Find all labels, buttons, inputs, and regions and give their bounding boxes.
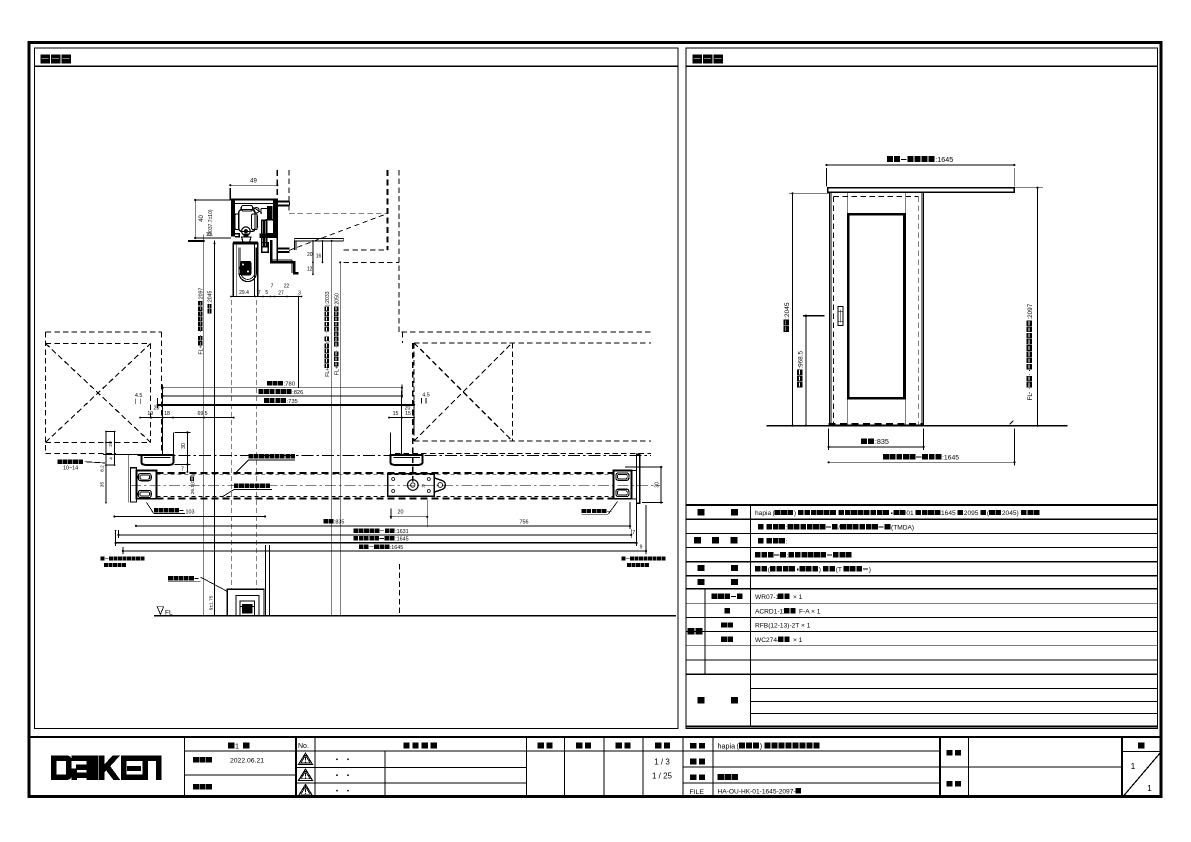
warning triangle 2	[299, 769, 313, 780]
right panel border	[686, 48, 1158, 729]
long dim line inner 1631	[119, 534, 632, 536]
svg-text::2050: :2050	[334, 293, 340, 306]
revision row dots	[336, 758, 338, 760]
svg-text:20: 20	[398, 510, 404, 516]
right panel title 正面図	[693, 55, 723, 64]
left jamb dim 30	[186, 432, 188, 464]
left jamb top edge	[129, 454, 174, 456]
seitei/kaitei row divider	[185, 774, 297, 776]
left panel title 断面図	[41, 55, 71, 64]
svg-text:69.5: 69.5	[197, 411, 207, 417]
svg-text:): )	[794, 510, 796, 517]
rail inner bolt detail	[267, 206, 272, 219]
right wall X-box verticals	[413, 343, 415, 441]
svg-text:1 / 3: 1 / 3	[654, 758, 670, 767]
band top bold dashed	[157, 472, 614, 474]
bottom stopper label	[168, 576, 198, 580]
spec table remarks inner lines	[751, 688, 1158, 690]
svg-text:30: 30	[655, 482, 661, 488]
soffit dashed top	[289, 212, 388, 214]
svg-text:(T: (T	[836, 567, 842, 574]
svg-text::1645: :1645	[390, 545, 404, 551]
dim 103	[114, 516, 265, 518]
left wall X-box top dashed	[46, 331, 162, 333]
right stopper flange	[637, 454, 640, 503]
handle height dim 968.5	[805, 316, 807, 426]
svg-text:40: 40	[199, 215, 205, 222]
svg-text:hapia: hapia	[755, 510, 771, 517]
long dim line rail 1645	[123, 550, 646, 552]
door width dim 835	[829, 446, 924, 448]
left stopper rollers	[138, 474, 151, 481]
svg-text::1645: :1645	[395, 537, 409, 543]
svg-text:× 1: × 1	[793, 594, 803, 601]
svg-text:20: 20	[405, 406, 411, 412]
bottom stopper outer dim 1645	[829, 461, 1015, 463]
svg-text:10~14: 10~14	[63, 466, 78, 472]
spec table hinban sub divider	[704, 589, 706, 675]
shimo stopper label right	[582, 509, 612, 513]
svg-text:5: 5	[265, 290, 268, 296]
kaitei date label	[193, 784, 212, 790]
opening dim line 1	[163, 387, 402, 389]
small dims row right	[389, 417, 414, 419]
rotated FL labels left pair	[198, 288, 204, 355]
door lock channel U	[239, 248, 256, 282]
svg-text::826: :826	[292, 390, 303, 396]
dim 756	[427, 525, 630, 527]
svg-text:1645: 1645	[941, 510, 956, 517]
svg-text:4: 4	[108, 457, 114, 460]
svg-text:): )	[819, 567, 821, 574]
svg-text:29.4: 29.4	[239, 290, 249, 296]
rail mount top bracket	[277, 201, 290, 203]
svg-text:103: 103	[186, 510, 195, 516]
svg-text:26.1(C: 26.1(C	[190, 479, 196, 494]
svg-text:2095: 2095	[964, 510, 979, 517]
bottom guide verticals	[265, 545, 267, 616]
left jamb bold piece	[141, 455, 173, 465]
door handle	[838, 307, 843, 326]
right panel label row line	[686, 65, 1158, 67]
soffit bottom solid lines	[294, 238, 343, 240]
left stopper block	[137, 471, 157, 499]
svg-text::1645: :1645	[942, 455, 959, 462]
svg-text:): )	[869, 567, 871, 574]
svg-text::968.5: :968.5	[797, 350, 804, 368]
band thickness label 26.1	[190, 474, 196, 494]
tick door top	[188, 240, 205, 242]
opening dim line 2	[163, 395, 402, 397]
svg-text:7: 7	[632, 530, 635, 536]
svg-text:RFB(12-13)-2T × 1: RFB(12-13)-2T × 1	[755, 623, 811, 630]
right stopper block	[614, 471, 632, 499]
left panel label row line	[35, 65, 679, 67]
svg-text:12: 12	[307, 267, 313, 273]
soffit corner verticals	[293, 241, 295, 250]
svg-text:/: /	[838, 525, 840, 532]
dim 40 left	[194, 200, 196, 238]
bottom FL offset label	[209, 595, 215, 610]
svg-text:(TMDA): (TMDA)	[891, 525, 914, 532]
left wall X-box verticals	[45, 332, 47, 454]
wall dashed bold right	[387, 170, 389, 250]
svg-text:): )	[760, 742, 762, 751]
spec table label divider	[750, 505, 752, 727]
rail end cap label right	[622, 557, 666, 561]
band label 1	[249, 454, 296, 458]
svg-text:4.5: 4.5	[422, 393, 430, 399]
svg-text:FL: FL	[165, 610, 173, 617]
svg-text:49: 49	[250, 179, 257, 185]
right wall X diagonals	[414, 343, 512, 441]
revision rows	[296, 766, 527, 768]
svg-text:No.: No.	[298, 743, 309, 750]
svg-text::735: :735	[287, 399, 298, 405]
opening dim extension verticals	[162, 385, 164, 434]
door leaf inner edge lines	[831, 192, 833, 425]
title block header bottom line	[185, 750, 941, 752]
middle runner bracket plate	[388, 474, 435, 497]
bottom stopper inner box	[240, 601, 255, 615]
dim 49 top	[230, 184, 277, 186]
opening dashed left	[833, 196, 835, 425]
svg-text:16: 16	[316, 254, 322, 260]
opening dashed top	[834, 195, 919, 197]
svg-text:FL+: FL+	[325, 368, 331, 377]
left wall X diagonals	[46, 344, 151, 443]
warning triangle 3	[299, 784, 313, 795]
dim 835	[136, 525, 427, 527]
small dims row left	[140, 417, 234, 419]
soffit extension lines	[331, 241, 333, 616]
runner bracket big circle	[408, 480, 419, 491]
long dim extension verticals	[115, 530, 117, 546]
svg-text:FILE: FILE	[690, 789, 705, 796]
floor line front view	[767, 425, 1068, 427]
left panel border	[35, 48, 679, 729]
svg-text:15: 15	[393, 411, 399, 417]
door lock body blob	[240, 261, 251, 276]
svg-text:FL+: FL+	[199, 345, 205, 354]
revision desc divider	[384, 751, 386, 797]
band label 2	[234, 484, 270, 488]
rail bottom hooks	[235, 234, 239, 237]
zumei text	[718, 774, 738, 780]
door height extension line	[214, 241, 216, 616]
shimo stopper label left	[154, 508, 184, 512]
right jamb bold piece	[390, 455, 422, 465]
svg-text:10: 10	[206, 232, 212, 238]
door face dashed projections	[231, 300, 233, 589]
rail tolerance label	[208, 209, 214, 236]
svg-text:1: 1	[1131, 761, 1136, 771]
floor line	[154, 615, 676, 617]
title block vertical dividers	[184, 737, 186, 797]
spec sub labels	[712, 594, 743, 599]
long dim line 1645 bold	[116, 542, 637, 544]
svg-text:ACRD1-11: ACRD1-11	[755, 608, 787, 615]
hanging rail bar	[828, 188, 1015, 193]
band center dashdot	[130, 485, 660, 487]
svg-text:(: (	[325, 341, 331, 343]
door design panel bold rect	[848, 214, 904, 398]
cover L piece	[271, 240, 298, 273]
left wall X-box bottom dashed	[46, 441, 151, 443]
dim row under assembly	[231, 296, 302, 298]
bottom stopper housing outer	[227, 589, 264, 615]
runner bracket pointed end	[434, 478, 445, 492]
door top edge	[233, 241, 258, 243]
svg-text:19: 19	[147, 411, 153, 417]
right stopper rollers	[616, 473, 629, 480]
page numbers with diagonal	[1124, 753, 1161, 797]
svg-text:20: 20	[108, 441, 114, 447]
front view top dimension 1645	[827, 164, 1015, 166]
FL to rail top dim 2097	[1037, 188, 1039, 426]
svg-text:30: 30	[181, 443, 187, 449]
svg-text:8.2: 8.2	[99, 465, 105, 472]
svg-text:1 / 25: 1 / 25	[652, 772, 673, 781]
warning triangle 1	[299, 753, 313, 764]
svg-text:15: 15	[405, 411, 411, 417]
svg-text:R: R	[422, 484, 426, 490]
svg-text::2045: :2045	[784, 302, 791, 319]
svg-text::2097: :2097	[1027, 303, 1034, 319]
svg-text:× 1: × 1	[793, 637, 803, 644]
svg-text:1: 1	[235, 741, 239, 750]
left stopper flange	[131, 468, 137, 502]
right wall bold dashed face	[412, 343, 414, 482]
title block outer	[29, 736, 1161, 738]
dim extension lines top	[826, 168, 828, 187]
right block dim 30	[660, 467, 662, 503]
svg-text:FL+: FL+	[334, 366, 340, 375]
svg-text:4.5: 4.5	[135, 393, 143, 399]
svg-text:3: 3	[298, 291, 301, 297]
svg-text:hapia: hapia	[718, 742, 736, 751]
svg-text:22: 22	[284, 284, 290, 290]
svg-text:2022.06.21: 2022.06.21	[230, 758, 264, 765]
svg-text:2045): 2045)	[1002, 510, 1019, 517]
svg-text::780: :780	[284, 382, 295, 388]
page header	[1138, 743, 1144, 749]
right wall bottom dashed	[414, 440, 651, 442]
hanger bracket plate	[242, 237, 251, 242]
right wall top dashed	[402, 331, 652, 333]
svg-text:7: 7	[258, 290, 261, 296]
door bottom stopper dashes	[829, 423, 924, 425]
center line dash-dot	[138, 454, 651, 456]
hanger axle	[242, 227, 251, 236]
opening dashed right	[917, 196, 919, 425]
svg-text:1: 1	[1147, 783, 1152, 793]
dim 20 under bracket	[391, 516, 427, 518]
left jamb verticals	[162, 391, 164, 455]
band bottom bold dashed	[157, 497, 614, 499]
wall dashed thin right	[398, 170, 400, 332]
dashed wall projection right	[398, 564, 400, 616]
svg-text:27: 27	[278, 291, 284, 297]
svg-text::: :	[787, 553, 789, 560]
svg-text:35: 35	[99, 482, 105, 488]
bottom stopper dark blob	[242, 604, 253, 614]
wall finish thickness dims	[105, 432, 107, 503]
svg-text:WR07-1: WR07-1	[755, 594, 780, 601]
door leaf section sides	[232, 242, 234, 296]
DAIKEN logo	[52, 756, 72, 780]
svg-text:7: 7	[181, 467, 184, 473]
small roller top right	[254, 208, 259, 213]
spec table horizontal lines	[686, 504, 1158, 506]
right jamb verticals	[401, 391, 403, 455]
svg-text:18: 18	[164, 411, 170, 417]
hanger side guides	[235, 214, 239, 230]
rail end cap label left	[101, 557, 145, 561]
svg-text:):2033: ):2033	[325, 291, 331, 306]
name rows	[683, 766, 1122, 768]
svg-text:20: 20	[307, 252, 313, 258]
svg-text:WC274-: WC274-	[755, 637, 779, 644]
svg-text:9: 9	[640, 545, 643, 551]
FL symbol	[157, 607, 163, 614]
door stile lines	[846, 192, 848, 425]
svg-text:7: 7	[271, 284, 274, 290]
rail mount lower flange	[277, 247, 290, 249]
wall finish label	[58, 460, 84, 464]
bottom stopper housing inner	[236, 596, 259, 616]
small dims 20 16 right of rail	[312, 241, 314, 274]
svg-text::: :	[786, 539, 788, 546]
wall face line behind rail	[276, 200, 278, 262]
svg-text::1631: :1631	[395, 529, 409, 535]
svg-text::2045: :2045	[208, 291, 214, 304]
svg-text::: :	[786, 525, 788, 532]
svg-text::2097: :2097	[199, 288, 205, 301]
hanger roller body	[239, 210, 255, 232]
stopper end slash mark	[1010, 421, 1014, 425]
svg-text:FL: FL	[1027, 393, 1034, 401]
hanger cross bracket	[262, 220, 267, 247]
rail inner step lines	[261, 208, 267, 210]
wall dashed thin left	[288, 170, 290, 213]
runner bracket corner holes	[392, 478, 395, 481]
seitei date	[193, 757, 212, 763]
wall lower dashed horizontals	[344, 249, 388, 251]
svg-text:F-A × 1: F-A × 1	[799, 608, 821, 615]
svg-text:01: 01	[906, 510, 914, 517]
svg-text:HA-OU-HK-01-1645-2097-: HA-OU-HK-01-1645-2097-	[718, 789, 796, 796]
svg-text:9±1.75: 9±1.75	[209, 595, 215, 610]
wall dashed bold left	[276, 170, 278, 200]
band inner thin dashed	[157, 474, 614, 476]
soffit diagonal brace	[289, 214, 388, 251]
opening dim line 3 bold	[158, 404, 414, 406]
spec row labels	[698, 509, 705, 515]
svg-text::835: :835	[875, 437, 889, 446]
hanging rail profile outer	[231, 198, 277, 200]
door leaf outer rect	[830, 192, 924, 425]
svg-text:756: 756	[520, 519, 529, 525]
door height dim 2045	[792, 193, 794, 425]
svg-text::1645: :1645	[935, 155, 953, 164]
svg-text::835: :835	[334, 519, 345, 525]
svg-text:20: 20	[154, 406, 160, 412]
rotated FL labels middle pair	[325, 291, 331, 377]
right jamb top edge	[390, 454, 423, 456]
FL rail-top extension line	[203, 235, 205, 616]
